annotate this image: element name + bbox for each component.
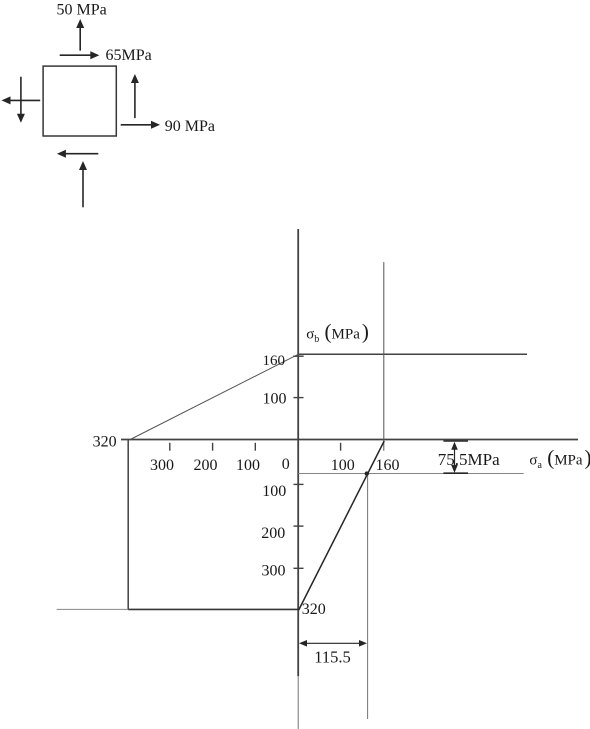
tick sigma_b -300	[294, 567, 304, 569]
arrow 65 MPa right (top shear)	[60, 51, 100, 59]
svg-text:300: 300	[262, 562, 286, 579]
tick sigma_b 160	[293, 355, 304, 357]
dimension double arrow 115.5	[299, 640, 367, 647]
sigma_a axis (horizontal)	[121, 439, 578, 441]
svg-text:115.5: 115.5	[314, 647, 351, 666]
tick sigma_b -100	[294, 483, 304, 485]
tick sigma_a -100	[254, 443, 256, 451]
svg-text:320: 320	[93, 433, 117, 450]
tick sigma_a -300	[169, 443, 171, 451]
tresca left vertical side	[127, 440, 129, 610]
guide vertical line at sigma_a = 160	[383, 262, 385, 451]
svg-text:100: 100	[236, 457, 260, 474]
arrow up (bottom normal)	[79, 161, 87, 207]
arrow down (left shear)	[17, 77, 25, 123]
svg-text:320: 320	[302, 601, 326, 618]
svg-text:100: 100	[331, 457, 355, 474]
arrow 90 MPa right (right normal)	[121, 121, 160, 129]
svg-text:100: 100	[262, 483, 286, 500]
tresca diagonal lower-right side	[299, 441, 385, 610]
tresca slant upper-left side	[130, 354, 298, 439]
dimension bar bottom (75.5 annotation)	[443, 472, 468, 474]
tresca top line sigma_b = 160	[298, 353, 527, 355]
svg-text:200: 200	[261, 525, 285, 542]
svg-text:90 MPa: 90 MPa	[165, 118, 215, 135]
tick sigma_a -200	[212, 443, 214, 451]
arrow left (left normal)	[2, 96, 41, 104]
tick sigma_b 100	[294, 397, 304, 399]
tick sigma_a +100	[340, 443, 342, 451]
guide vertical line at sigma_a = 115.5	[367, 474, 369, 719]
svg-text:200: 200	[194, 457, 218, 474]
dimension double arrow 75.5	[451, 442, 458, 473]
svg-text:160: 160	[263, 353, 286, 369]
stress element square	[43, 66, 116, 136]
sigma_b axis (vertical, dark part)	[297, 229, 299, 676]
svg-text:160: 160	[376, 457, 400, 474]
thin extension of bottom line to the left	[57, 608, 129, 610]
arrow 50 MPa up (top normal)	[76, 19, 84, 51]
tick sigma_b -200	[294, 525, 304, 527]
svg-text:65MPa: 65MPa	[106, 47, 152, 64]
svg-text:75.5MPa: 75.5MPa	[438, 450, 500, 469]
svg-text:100: 100	[263, 391, 287, 408]
sigma_b axis thin lower continuation	[297, 676, 299, 729]
svg-text:0: 0	[282, 456, 290, 473]
guide horizontal line sigma_b = -75.5	[298, 473, 524, 475]
svg-text:300: 300	[150, 457, 174, 474]
arrow up (right shear)	[131, 74, 139, 118]
dimension bar top (75.5 annotation)	[443, 440, 468, 442]
svg-text:50 MPa: 50 MPa	[57, 2, 107, 19]
failure point dot	[365, 471, 369, 475]
arrow left (bottom shear)	[57, 150, 98, 158]
tresca bottom line sigma_b = -320	[128, 608, 299, 610]
